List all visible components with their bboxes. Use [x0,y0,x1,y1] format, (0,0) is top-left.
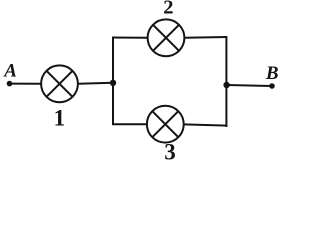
wire lamp 1 to left junction [78,83,113,84]
node A label [3,60,17,81]
svg-text:3: 3 [164,140,176,165]
svg-text:A: A [3,60,17,81]
value label 2 [163,0,173,19]
svg-text:2: 2 [163,0,173,19]
lamp 2 (circle with X) [148,19,185,56]
node B label [265,63,279,84]
wire A to lamp 1 [10,83,41,85]
node B terminal dot [269,83,275,89]
wire top rail left segment [112,37,148,39]
wire top rail right segment [184,36,227,39]
lamp 3 (circle with X) [147,106,184,143]
left rail wire (vertical) [112,38,114,125]
wire bottom rail right segment [184,124,228,125]
value label 3 [164,140,176,165]
wire bottom rail left segment [112,123,147,125]
svg-text:B: B [265,63,279,84]
node A terminal dot [7,81,13,87]
junction left node [110,80,116,86]
right rail wire (vertical) [225,37,227,127]
value label 1 [54,106,66,131]
svg-text:1: 1 [54,106,66,131]
junction right node [223,82,229,88]
lamp 1 (circle with X) [41,65,78,102]
wire right junction to B [227,85,272,86]
